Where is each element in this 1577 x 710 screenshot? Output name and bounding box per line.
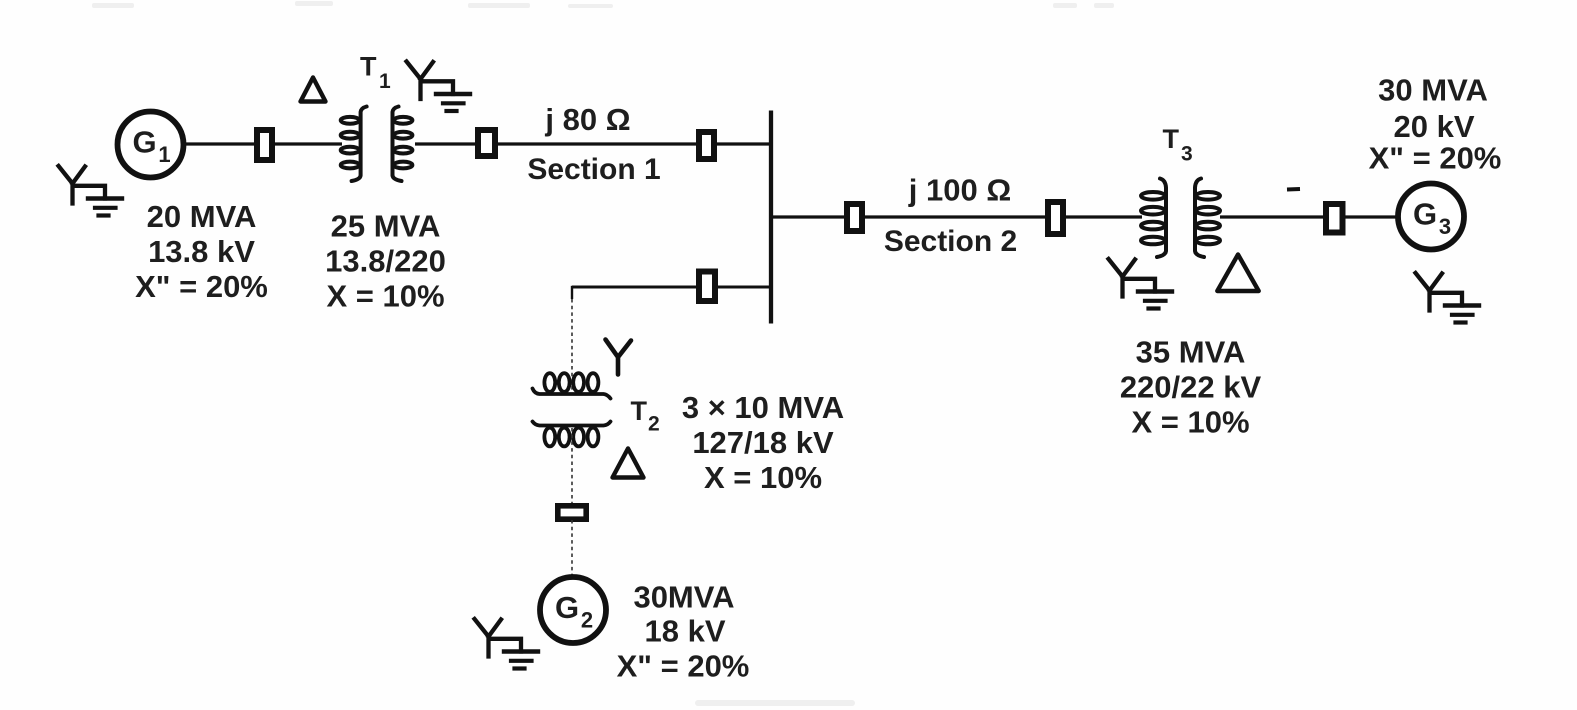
svg-text:j 100 Ω: j 100 Ω [908, 173, 1011, 208]
svg-text:3: 3 [1439, 214, 1451, 239]
bus 1 [769, 111, 773, 324]
svg-text:T: T [1163, 124, 1180, 154]
svg-text:220/22 kV: 220/22 kV [1120, 370, 1262, 405]
svg-text:X = 10%: X = 10% [704, 460, 822, 495]
generator G3 [1398, 184, 1464, 250]
wire breaker to T3 [1064, 215, 1142, 218]
svg-text:25 MVA: 25 MVA [331, 209, 441, 244]
breaker [558, 506, 586, 519]
wire breaker to G2 [571, 520, 573, 576]
wire breaker to T1 [273, 142, 342, 145]
wye winding symbol (T2 primary) [606, 340, 632, 375]
svg-text:Section 2: Section 2 [884, 225, 1017, 258]
transformer T3 [1141, 179, 1220, 258]
svg-text:j 80 Ω: j 80 Ω [544, 102, 630, 137]
delta winding symbol (T3 secondary) [1217, 255, 1258, 292]
svg-text:1: 1 [379, 70, 391, 93]
generator G2 [540, 577, 606, 643]
ground (T1 wye neutral) [407, 62, 471, 112]
svg-text:18 kV: 18 kV [644, 614, 725, 649]
svg-text:T: T [360, 52, 377, 82]
transformer T2 [533, 373, 611, 446]
svg-text:G: G [1413, 197, 1437, 232]
breaker [847, 204, 862, 231]
G3 ratings label [1369, 73, 1502, 176]
wire T3 to breaker [1220, 215, 1327, 218]
T2 ratings label [682, 390, 844, 495]
breaker [699, 132, 714, 159]
wire bus to breaker (T2 feeder) [714, 286, 771, 289]
svg-text:127/18 kV: 127/18 kV [692, 425, 834, 460]
svg-text:2: 2 [581, 608, 593, 633]
svg-text:13.8 kV: 13.8 kV [148, 234, 255, 269]
breaker [699, 272, 715, 302]
svg-text:1: 1 [158, 142, 170, 167]
T3 ratings label [1120, 335, 1262, 440]
svg-text:3: 3 [1181, 143, 1193, 166]
transformer T1 [341, 107, 413, 182]
ground (G3 neutral) [1416, 273, 1480, 323]
generator G1 [118, 112, 184, 178]
wire breaker to G3 [1343, 215, 1399, 218]
wire G1 to breaker [184, 142, 258, 145]
line section 2 wire [863, 215, 1049, 218]
breaker [1048, 202, 1063, 234]
svg-text:G: G [555, 590, 579, 625]
line section 1 wire [496, 142, 700, 145]
svg-text:X" = 20%: X" = 20% [1369, 141, 1502, 176]
ground (G1 neutral) [59, 166, 123, 216]
delta winding symbol (T1 primary) [301, 78, 326, 102]
breaker [1326, 204, 1343, 233]
wire T2 to breaker [571, 428, 573, 505]
wire breaker to T2 [572, 286, 700, 393]
breaker [478, 130, 495, 156]
T1 ratings label [325, 209, 446, 314]
svg-text:3 × 10 MVA: 3 × 10 MVA [682, 390, 844, 425]
scan smudge [92, 1, 1114, 706]
G1 ratings label [135, 199, 268, 304]
svg-text:T: T [631, 396, 648, 426]
svg-text:Section 1: Section 1 [527, 153, 660, 186]
G2 ratings label [617, 580, 750, 684]
wire T1 to breaker [415, 142, 479, 145]
svg-text:30MVA: 30MVA [633, 580, 734, 615]
breaker [257, 130, 272, 160]
ink smudge [1287, 187, 1300, 192]
svg-text:20 MVA: 20 MVA [147, 199, 257, 234]
svg-text:20 kV: 20 kV [1393, 109, 1474, 144]
svg-text:X = 10%: X = 10% [326, 279, 444, 314]
svg-text:X" = 20%: X" = 20% [135, 269, 268, 304]
svg-text:X" = 20%: X" = 20% [617, 649, 750, 684]
svg-text:G: G [132, 125, 156, 160]
svg-text:2: 2 [648, 413, 660, 436]
ground (T3 wye neutral) [1109, 259, 1173, 309]
svg-text:13.8/220: 13.8/220 [325, 244, 446, 279]
wire bus to breaker [771, 215, 848, 218]
ground (G2 neutral) [475, 619, 539, 669]
wire breaker to bus [715, 142, 771, 145]
svg-text:X = 10%: X = 10% [1131, 405, 1249, 440]
svg-text:30 MVA: 30 MVA [1378, 73, 1488, 108]
delta winding symbol (T2 secondary) [613, 449, 644, 478]
svg-text:35 MVA: 35 MVA [1136, 335, 1246, 370]
